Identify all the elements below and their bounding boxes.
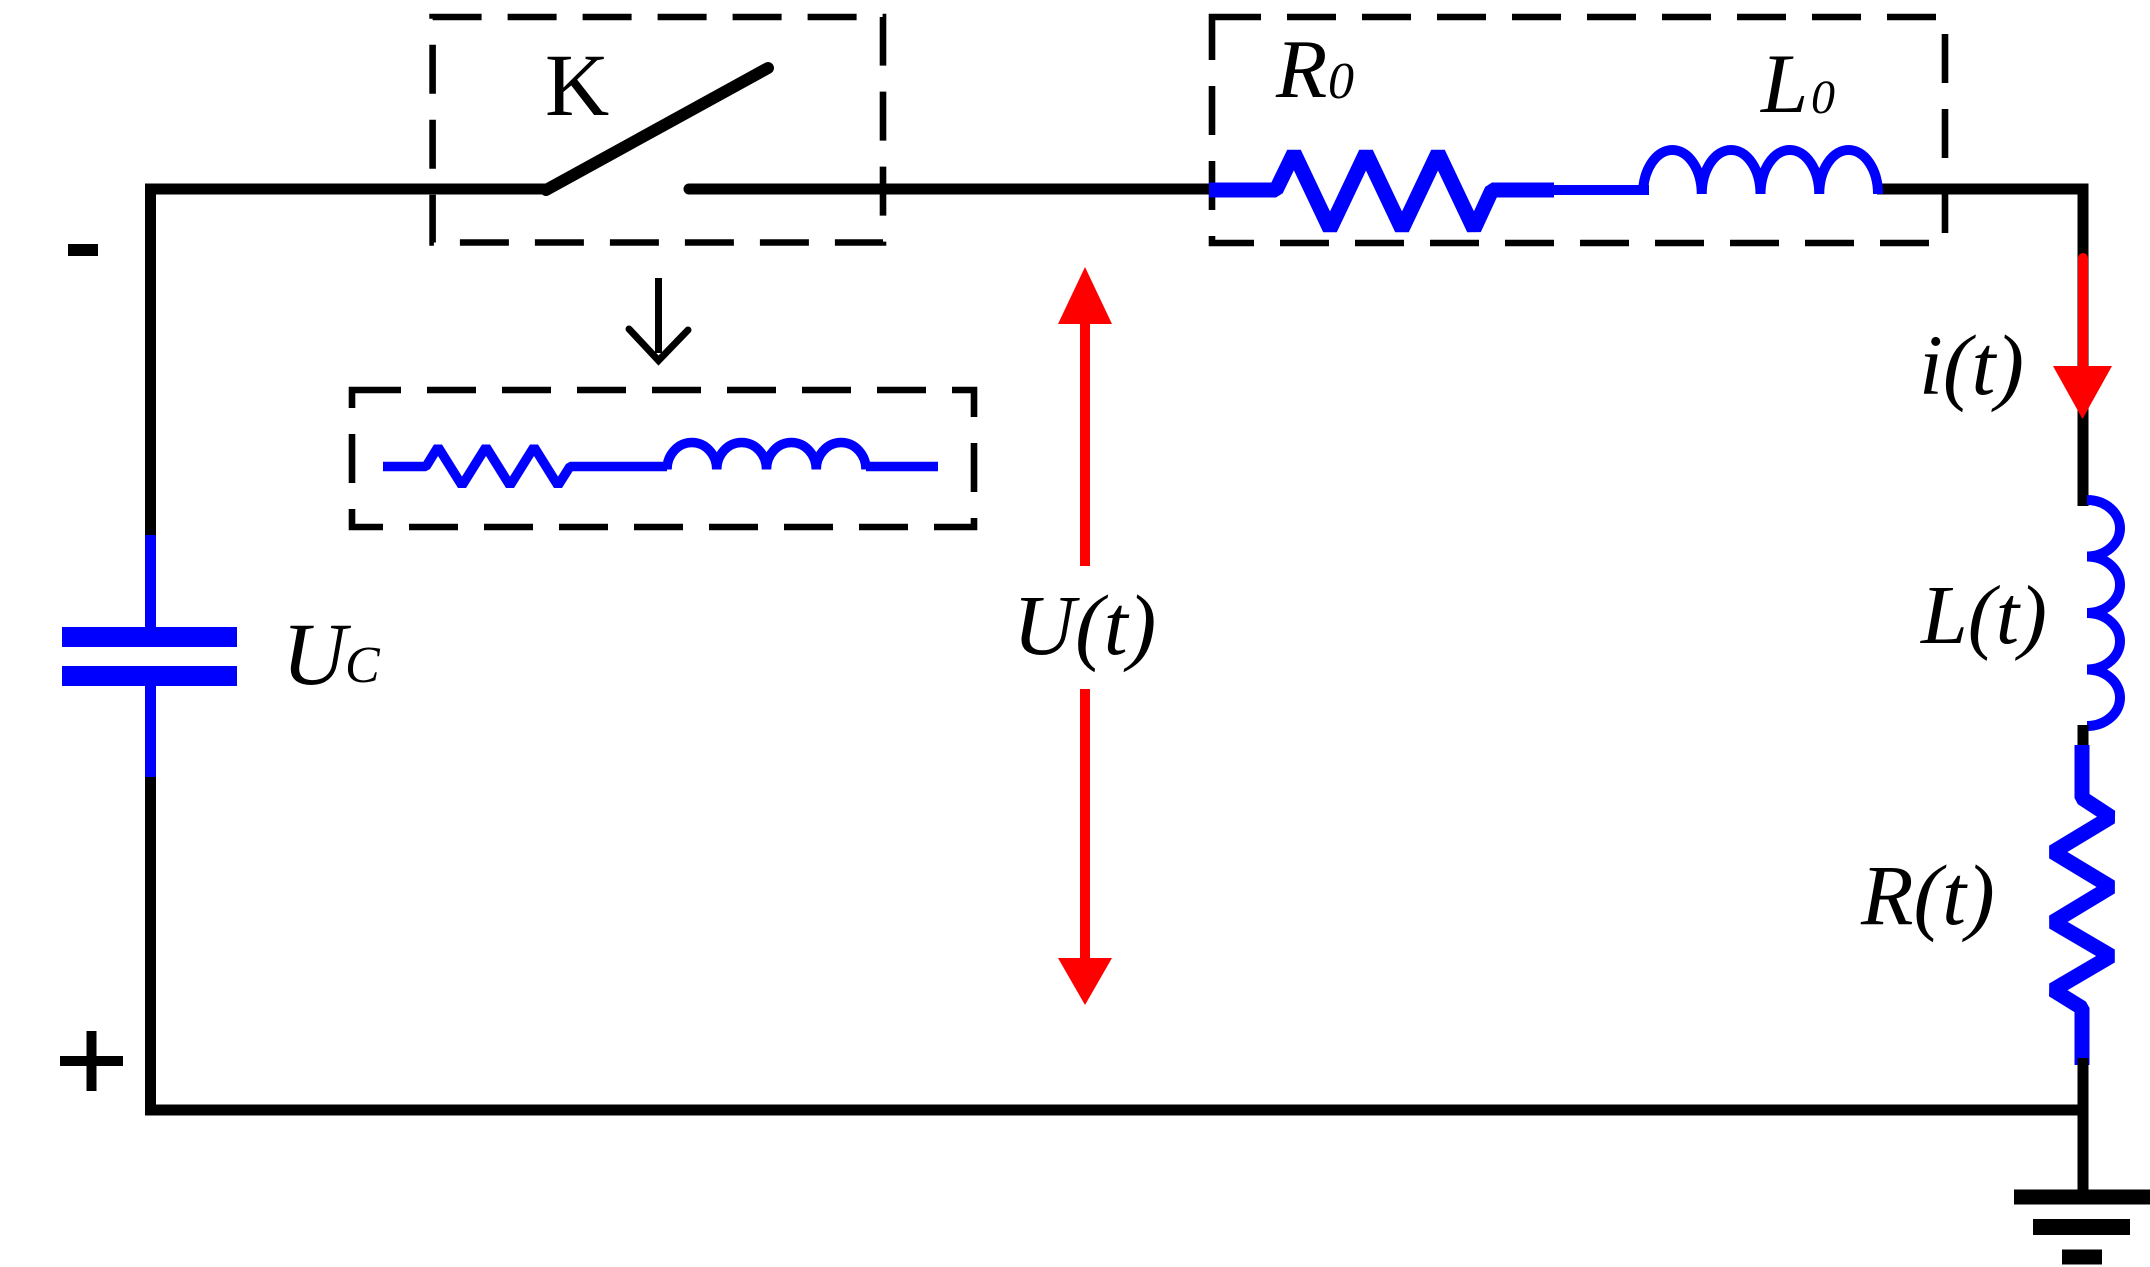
minus sign [68, 244, 98, 256]
svg-text:i(t): i(t) [1919, 317, 2024, 413]
wire top left [145, 184, 549, 195]
plus sign [60, 1056, 123, 1066]
svg-text:0: 0 [1328, 53, 1354, 110]
down arrow head [629, 329, 688, 361]
svg-text:C: C [345, 637, 381, 694]
switch K lever [546, 68, 768, 190]
wire left vertical lower [145, 777, 156, 1116]
resistor small (in lower box) [383, 447, 667, 486]
i(t) arrow shaft [2078, 258, 2088, 372]
inductor L(t) [2087, 500, 2120, 726]
U(t) arrow bottom shaft [1080, 689, 1090, 962]
wire blue small right lead [866, 462, 938, 472]
ground bar 1 [2014, 1190, 2150, 1205]
svg-text:0: 0 [1811, 71, 1835, 124]
wire blue thin R0-L0 [1550, 185, 1649, 195]
svg-text:U: U [282, 606, 352, 704]
switch box (dashed) [433, 17, 883, 243]
wire right vertical upper [2078, 184, 2089, 507]
svg-text:R(t): R(t) [1860, 847, 1995, 943]
resistor R0 [1209, 153, 1554, 229]
wire left vertical upper [145, 184, 156, 538]
ground bar 2 [2033, 1219, 2130, 1235]
capacitor UC bottom stub [145, 685, 156, 778]
capacitor UC top plate [62, 627, 237, 647]
lower RL box (dashed) [352, 390, 974, 527]
U(t) arrow top head [1058, 267, 1112, 324]
svg-text:L(t): L(t) [1920, 569, 2047, 662]
wire bottom [145, 1105, 2089, 1116]
wire top right [1877, 184, 2089, 195]
wire right vertical lower [2078, 1058, 2089, 1197]
svg-text:K: K [545, 37, 609, 135]
U(t) arrow top shaft [1080, 320, 1090, 566]
wire stub between L(t) and R(t) [2078, 725, 2089, 750]
svg-text:L: L [1760, 37, 1808, 131]
ground bar 3 [2062, 1250, 2102, 1265]
down arrow shaft [655, 278, 662, 353]
inductor small (in lower box) [667, 443, 866, 470]
resistor R(t) [2053, 745, 2111, 1065]
svg-text:U(t): U(t) [1013, 577, 1156, 673]
capacitor UC bottom plate [62, 666, 237, 686]
inductor L0 [1643, 150, 1878, 194]
svg-text:R: R [1275, 23, 1327, 116]
capacitor UC top stub [145, 535, 156, 628]
wire switch right contact [689, 184, 1213, 195]
U(t) arrow bottom head [1058, 958, 1112, 1005]
i(t) arrow head [2053, 366, 2112, 419]
R0 L0 box (dashed) [1212, 17, 1945, 243]
